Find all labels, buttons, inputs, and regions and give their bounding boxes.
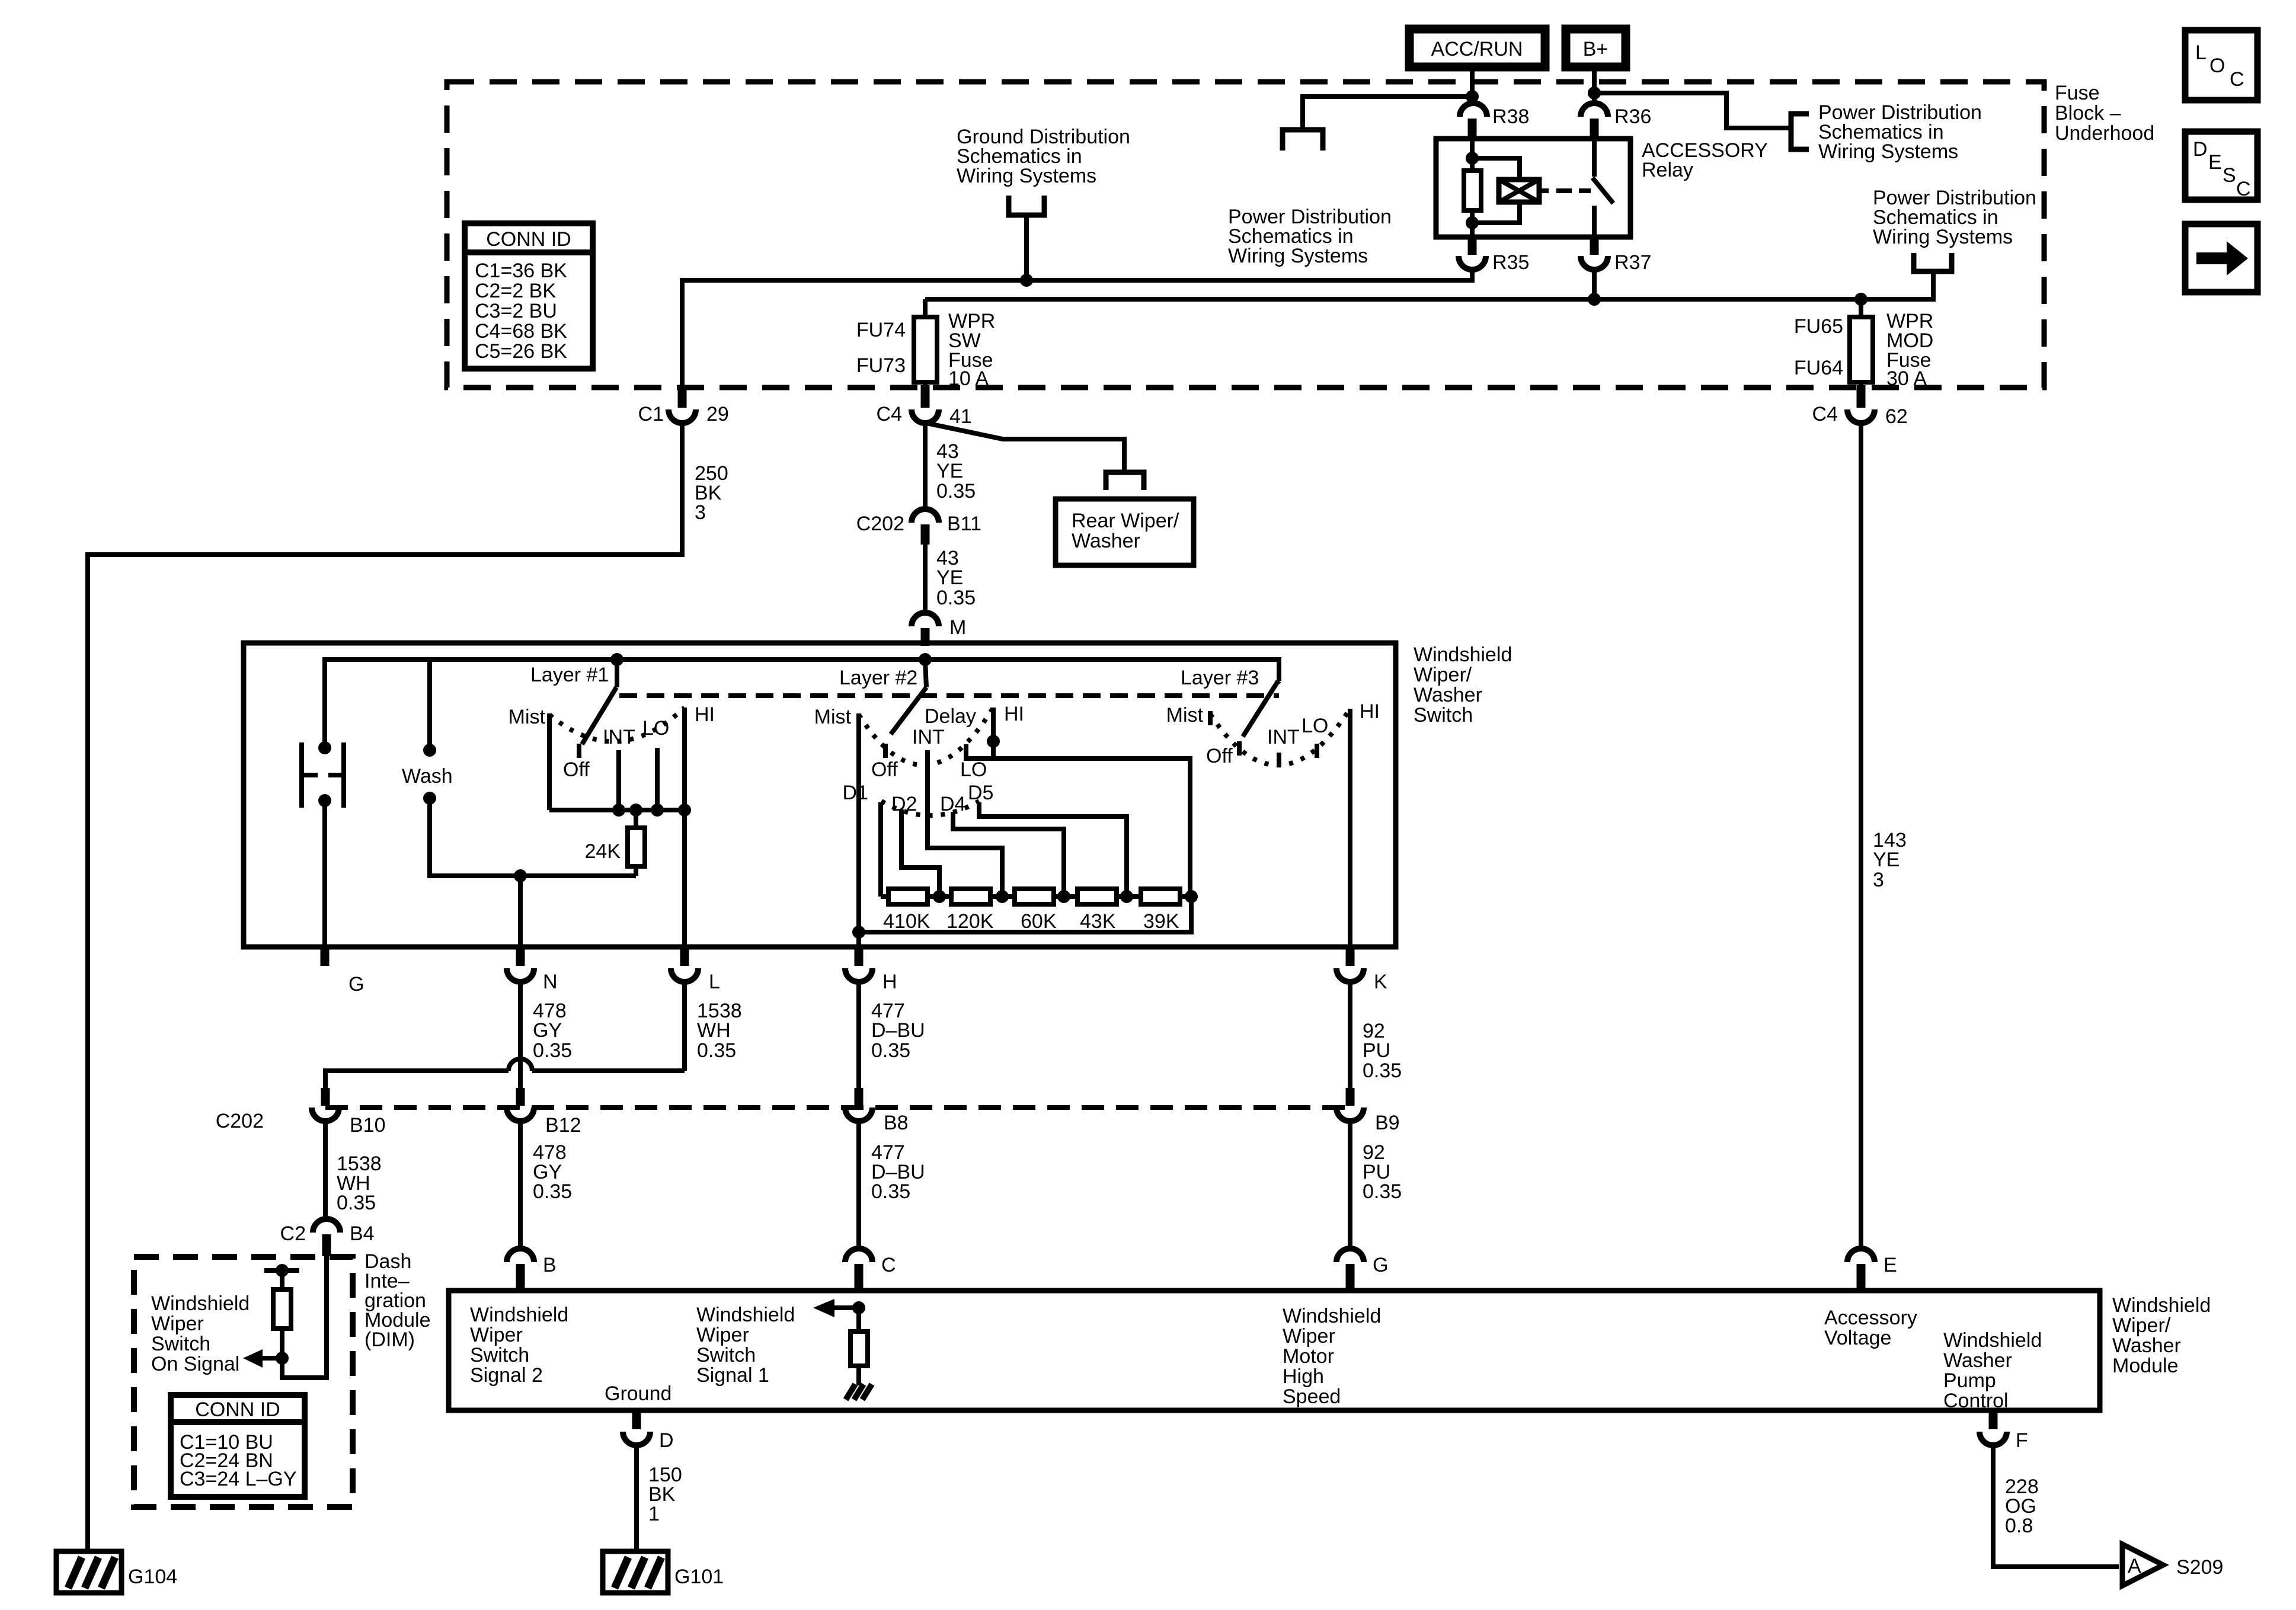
- label: 228 OG 0.8: [2005, 1475, 2039, 1537]
- wire: layer1 contact bus: [549, 808, 685, 812]
- svg-text:Switch: Switch: [470, 1344, 529, 1366]
- svg-text:High: High: [1283, 1365, 1324, 1388]
- terminal F (module): [1980, 1410, 2028, 1452]
- svg-text:FU65: FU65: [1794, 315, 1843, 338]
- fuse FU74/FU73: WPR SW Fuse 10 A: [856, 299, 995, 390]
- label: 92 PU 0.35 (K): [1363, 1020, 1402, 1082]
- terminal B (module): [507, 1249, 557, 1291]
- connector M (wiper switch): [912, 613, 966, 646]
- CONN ID table (DIM): [171, 1395, 305, 1497]
- svg-text:B12: B12: [545, 1114, 581, 1137]
- svg-text:G: G: [1373, 1254, 1388, 1276]
- wire: layer1 LO contact: [655, 748, 660, 810]
- node: coil bottom junction: [1466, 216, 1479, 229]
- connector C1 pin 29: [638, 385, 729, 425]
- label: 92 PU 0.35 (B9): [1363, 1141, 1402, 1203]
- wire: wash branch drop: [427, 660, 432, 750]
- svg-text:C1=36 BK: C1=36 BK: [475, 260, 567, 282]
- node: N drop junction: [514, 869, 527, 882]
- svg-text:Switch: Switch: [696, 1344, 756, 1366]
- bus junction nodes: [612, 804, 625, 817]
- label: Ground Distribution Schematics in Wiring Systems: [957, 126, 1130, 187]
- wire: ground distribution stem: [1024, 215, 1029, 280]
- washer pump momentary switch: [302, 741, 344, 808]
- svg-text:R35: R35: [1492, 251, 1529, 274]
- svg-text:24K: 24K: [585, 840, 621, 863]
- wire 228 OG 0.8: [1993, 1445, 2119, 1567]
- svg-text:Fuse: Fuse: [2055, 82, 2100, 104]
- svg-text:B10: B10: [350, 1114, 386, 1137]
- svg-text:Wiring Systems: Wiring Systems: [1873, 226, 2013, 248]
- svg-text:Wiper/: Wiper/: [1414, 664, 1472, 686]
- resistor (relay coil suppression): [1464, 171, 1481, 210]
- wire 1538 WH 0.35 (B10 to B4): [323, 1121, 328, 1218]
- connector C202 pin B8: [845, 1088, 909, 1134]
- label: 1538 WH 0.35 (L): [697, 1000, 742, 1062]
- svg-text:Off: Off: [1206, 745, 1233, 767]
- svg-text:3: 3: [695, 501, 706, 524]
- wire: B+ down to relay R36: [1592, 67, 1597, 104]
- label: 43 YE 0.35 (lower): [936, 547, 976, 609]
- connector C202 pin B9: [1336, 1088, 1400, 1134]
- svg-text:D1: D1: [843, 782, 868, 804]
- svg-text:D2: D2: [891, 793, 917, 815]
- svg-text:Pump: Pump: [1943, 1369, 1996, 1392]
- svg-text:C4: C4: [1812, 403, 1838, 425]
- wire: layer1 INT contact: [616, 750, 621, 810]
- svg-text:G: G: [348, 973, 364, 996]
- svg-text:0.35: 0.35: [936, 480, 976, 502]
- svg-text:D–BU: D–BU: [871, 1019, 925, 1042]
- svg-text:K: K: [1374, 971, 1387, 993]
- svg-text:G104: G104: [128, 1566, 177, 1588]
- svg-text:LO: LO: [1302, 715, 1328, 737]
- terminal G (switch): [325, 947, 364, 996]
- svg-text:Layer #3: Layer #3: [1181, 667, 1259, 689]
- svg-text:0.35: 0.35: [337, 1192, 376, 1214]
- svg-text:Washer: Washer: [1943, 1349, 2012, 1372]
- svg-text:LO: LO: [960, 758, 987, 781]
- ladder junction nodes: [933, 890, 946, 903]
- svg-text:INT: INT: [912, 726, 945, 748]
- svg-text:0.35: 0.35: [936, 587, 976, 609]
- wire: coil branch top: [1472, 158, 1520, 180]
- connector C4 pin 41: [877, 385, 972, 428]
- svg-text:D5: D5: [968, 782, 993, 804]
- svg-text:C1: C1: [638, 403, 664, 425]
- svg-text:41: 41: [949, 405, 972, 428]
- connector C4 pin 62: [1812, 385, 1908, 428]
- svg-text:Rear Wiper/: Rear Wiper/: [1072, 510, 1179, 532]
- terminal E (module): [1847, 1249, 1897, 1291]
- svg-text:YE: YE: [936, 460, 963, 482]
- svg-text:Mist: Mist: [509, 706, 546, 728]
- svg-text:B11: B11: [947, 513, 981, 535]
- svg-text:HI: HI: [1360, 700, 1380, 723]
- wire: branch to Rear Wiper/Washer: [926, 423, 1124, 472]
- svg-text:39K: 39K: [1143, 910, 1179, 933]
- svg-text:Windshield: Windshield: [1943, 1329, 2042, 1352]
- reference bracket: Power Distribution (ACC/RUN): [1283, 130, 1323, 151]
- svg-text:N: N: [543, 971, 558, 993]
- node: layer2 HI junction: [987, 735, 1000, 748]
- switch arm layer 3: [1243, 681, 1279, 737]
- svg-text:62: 62: [1885, 405, 1908, 428]
- node: M junction on rail: [919, 653, 932, 666]
- relay actuator dashed link: [1556, 188, 1591, 193]
- Fuse Block - Underhood dashed boundary: [447, 82, 2044, 388]
- svg-text:Switch: Switch: [151, 1333, 210, 1355]
- resistor 410K: [883, 889, 930, 933]
- svg-text:L: L: [709, 971, 720, 993]
- svg-text:E: E: [1884, 1254, 1897, 1276]
- node: DIM signal junction: [276, 1352, 289, 1365]
- wire: N drop: [518, 876, 523, 947]
- wire 1538 WH 0.35 (L): [682, 982, 687, 1071]
- reference bracket: Ground Distribution: [1009, 196, 1044, 215]
- connector C2 pin B4: [280, 1219, 375, 1256]
- relay switch contact: [1593, 139, 1613, 237]
- box: Rear Wiper/Washer: [1056, 499, 1194, 565]
- svg-text:Wiper: Wiper: [696, 1324, 749, 1346]
- svg-text:C: C: [881, 1254, 896, 1276]
- reference bracket: Power Distribution (WPR MOD): [1914, 253, 1952, 271]
- wire 478 GY 0.35 (B12 to B): [518, 1121, 523, 1249]
- wire: switch feed rail: [325, 660, 1279, 748]
- svg-text:Motor: Motor: [1283, 1345, 1334, 1368]
- box: Windshield Wiper/Washer Module: [449, 1291, 2100, 1410]
- layer1 Off contact: [577, 744, 581, 758]
- svg-text:S209: S209: [2176, 1556, 2223, 1579]
- svg-text:O: O: [2209, 55, 2225, 77]
- delay resistor ladder bus: [881, 894, 1191, 899]
- box: Windshield Wiper/Washer Switch: [244, 643, 1396, 947]
- svg-text:1: 1: [648, 1503, 660, 1525]
- svg-text:C4: C4: [877, 403, 902, 425]
- svg-text:ACC/RUN: ACC/RUN: [1431, 38, 1523, 60]
- CONN ID table (fuse block): [465, 223, 593, 369]
- svg-text:Windshield: Windshield: [1283, 1305, 1381, 1327]
- connector C202 pin B12: [507, 1088, 581, 1137]
- svg-text:Off: Off: [563, 758, 590, 781]
- svg-text:C2=2 BK: C2=2 BK: [475, 280, 556, 302]
- svg-text:FU64: FU64: [1794, 357, 1843, 379]
- terminal H (switch): [845, 947, 897, 993]
- svg-text:B: B: [543, 1254, 557, 1276]
- svg-text:C3=24 L–GY: C3=24 L–GY: [180, 1468, 297, 1490]
- wire: layer1 HI contact to L terminal: [682, 708, 687, 947]
- svg-text:B4: B4: [350, 1222, 375, 1245]
- svg-text:FU73: FU73: [856, 354, 906, 377]
- connector R38: [1460, 103, 1529, 139]
- label: Power Distribution Schematics in Wiring Systems (ACC/RUN): [1228, 206, 1392, 267]
- svg-text:Washer: Washer: [2112, 1334, 2181, 1357]
- label: Windshield Washer Pump Control: [1943, 1329, 2042, 1412]
- svg-text:Signal 2: Signal 2: [470, 1364, 543, 1387]
- label: Windshield Wiper/Washer Switch: [1414, 644, 1512, 726]
- label: Fuse Block - Underhood: [2055, 82, 2154, 145]
- wire: layer2 Mist contact to H terminal: [856, 713, 861, 947]
- wire: layer3 HI contact to K terminal: [1348, 709, 1352, 947]
- wire C4-62 to E: 143 YE 3: [1859, 423, 1863, 1249]
- layer3 INT contact: [1277, 753, 1281, 767]
- svg-text:43K: 43K: [1080, 910, 1116, 933]
- svg-text:Delay: Delay: [925, 705, 976, 728]
- svg-text:INT: INT: [1267, 726, 1300, 748]
- svg-text:HI: HI: [695, 703, 715, 726]
- reference bracket: Rear Wiper/Washer feed: [1106, 472, 1144, 490]
- svg-text:10 A: 10 A: [948, 367, 989, 390]
- svg-text:Voltage: Voltage: [1824, 1327, 1891, 1349]
- wire: layer2 LO contact elbow: [966, 744, 993, 758]
- node: DIM terminal junction: [276, 1264, 289, 1277]
- node: R37 junction: [1588, 293, 1601, 306]
- connector R35: [1459, 237, 1529, 274]
- svg-text:S: S: [2223, 164, 2236, 187]
- label: 43 YE 0.35 (upper): [936, 440, 976, 502]
- svg-text:YE: YE: [936, 566, 963, 589]
- switch arm layer 1: [582, 660, 617, 744]
- switch arm layer 2: [891, 660, 926, 734]
- resistor 39K: [1141, 889, 1180, 933]
- svg-text:G101: G101: [674, 1566, 724, 1588]
- label: 150 BK 1: [648, 1464, 682, 1525]
- svg-text:Wiring Systems: Wiring Systems: [1228, 245, 1368, 267]
- connector R37: [1581, 237, 1651, 274]
- svg-text:HI: HI: [1004, 703, 1024, 725]
- svg-text:0.35: 0.35: [871, 1039, 910, 1062]
- module internal resistor: [850, 1308, 868, 1385]
- svg-text:B9: B9: [1375, 1112, 1400, 1134]
- DIM input terminal bar: [264, 1268, 299, 1273]
- svg-text:C202: C202: [216, 1110, 264, 1132]
- svg-text:C5=26 BK: C5=26 BK: [475, 340, 567, 363]
- label: Windshield Wiper/Washer Module: [2112, 1294, 2211, 1377]
- terminal N (switch): [507, 947, 558, 993]
- svg-text:Wiper: Wiper: [1283, 1325, 1335, 1347]
- wire 478 GY 0.35 (N): [518, 982, 523, 1090]
- svg-text:0.8: 0.8: [2005, 1515, 2033, 1537]
- svg-text:Wiper/: Wiper/: [2112, 1314, 2171, 1337]
- svg-text:C2: C2: [280, 1222, 306, 1245]
- relay U1: ACCESSORY Relay box: [1436, 139, 1630, 237]
- svg-text:Block –: Block –: [2055, 102, 2121, 124]
- ground G101: [603, 1551, 724, 1593]
- node: layer1 junction on rail: [610, 653, 623, 666]
- layer3 Mist contact: [1208, 711, 1213, 725]
- LOC reference box: [2185, 30, 2257, 100]
- wire 477 D-BU 0.35 (B8 to C): [856, 1121, 861, 1249]
- label: Windshield Wiper Switch Signal 2: [470, 1304, 568, 1387]
- svg-text:Ground: Ground: [605, 1382, 671, 1405]
- node: H junction: [852, 926, 865, 939]
- svg-text:Wiper: Wiper: [470, 1324, 523, 1346]
- wire: B4 into DIM: [282, 1255, 327, 1378]
- forward arrow reference box: [2185, 224, 2257, 292]
- svg-text:Wiring Systems: Wiring Systems: [1818, 140, 1958, 163]
- wire: ACC/RUN down to relay R38: [1470, 67, 1475, 104]
- wire 150 BK 1: [634, 1445, 639, 1551]
- svg-text:Windshield: Windshield: [696, 1304, 795, 1326]
- svg-text:0.35: 0.35: [1363, 1180, 1402, 1203]
- svg-text:Accessory: Accessory: [1824, 1307, 1917, 1329]
- label: 477 D-BU 0.35 (B8): [871, 1141, 925, 1203]
- svg-text:A: A: [2128, 1555, 2141, 1577]
- svg-text:F: F: [2016, 1429, 2028, 1452]
- svg-text:H: H: [882, 971, 897, 993]
- wire: ACC/RUN feed branch to power distribution reference: [1303, 97, 1472, 130]
- svg-text:C: C: [2236, 178, 2251, 200]
- label: 1538 WH 0.35 (B10): [337, 1153, 382, 1214]
- svg-text:Mist: Mist: [814, 706, 852, 728]
- wire: R35 down and left to C1 column: [682, 270, 1472, 388]
- resistor 120K: [946, 889, 994, 933]
- ground G104: [56, 1551, 177, 1593]
- label: Windshield Wiper Switch On Signal: [151, 1292, 250, 1375]
- wire: layer2 HI contact to 39K junction: [993, 708, 1190, 897]
- wire: D5 contact to 43K/39K junction: [979, 802, 1127, 897]
- svg-text:3: 3: [1873, 869, 1884, 891]
- wire: R37 down to fuse feed rail: [1592, 270, 1597, 299]
- label: ACCESSORY Relay: [1642, 139, 1768, 181]
- svg-text:C4=68 BK: C4=68 BK: [475, 320, 567, 343]
- svg-text:Mist: Mist: [1166, 704, 1204, 726]
- label: Windshield Wiper Motor High Speed: [1283, 1305, 1381, 1408]
- svg-text:R38: R38: [1492, 105, 1529, 128]
- svg-text:29: 29: [706, 403, 729, 425]
- svg-text:Washer: Washer: [1072, 530, 1140, 552]
- svg-text:CONN ID: CONN ID: [195, 1398, 280, 1421]
- terminal L (switch): [671, 947, 720, 993]
- svg-text:Wiring Systems: Wiring Systems: [957, 165, 1096, 187]
- wire 43 YE 0.35 (upper): [923, 423, 928, 508]
- svg-text:On Signal: On Signal: [151, 1353, 239, 1375]
- layer3 Off contact: [1237, 741, 1242, 756]
- relay coil symbol (crossed box): [1499, 180, 1549, 202]
- svg-text:YE: YE: [1873, 849, 1900, 871]
- wire: D1 contact to 410K left: [878, 802, 883, 897]
- svg-text:D: D: [2193, 138, 2208, 161]
- terminal K (switch): [1336, 947, 1387, 993]
- wire: relay coil leg: [1470, 139, 1475, 171]
- ACC/RUN power feed box: [1409, 29, 1545, 67]
- svg-text:410K: 410K: [883, 910, 930, 933]
- layer3 LO contact: [1315, 744, 1319, 758]
- wire: layer1 Mist contact: [547, 713, 552, 810]
- svg-text:C: C: [2230, 68, 2244, 91]
- svg-text:E: E: [2208, 151, 2222, 174]
- wire: below resistor: [1470, 210, 1475, 237]
- svg-text:Wash: Wash: [402, 765, 453, 788]
- svg-text:B+: B+: [1583, 38, 1609, 60]
- svg-text:Windshield: Windshield: [2112, 1294, 2211, 1317]
- connector C202 pin B10: [216, 1088, 386, 1137]
- splice reference S209: [2122, 1544, 2223, 1586]
- svg-text:B8: B8: [884, 1112, 909, 1134]
- wire: wash switch to G terminal: [322, 801, 327, 947]
- B+ power feed box: [1566, 29, 1626, 67]
- svg-text:WH: WH: [697, 1019, 731, 1042]
- label: Windshield Wiper Switch Signal 1: [696, 1304, 795, 1387]
- svg-text:L: L: [2195, 41, 2207, 64]
- wire 477 D-BU 0.35 (H): [856, 982, 861, 1090]
- layer2 Off contact: [883, 744, 888, 758]
- connector R36: [1581, 103, 1651, 139]
- svg-text:D: D: [659, 1429, 674, 1452]
- resistor 24K: [585, 810, 645, 876]
- wash contact dots: [423, 744, 436, 757]
- svg-text:Washer: Washer: [1414, 684, 1482, 706]
- resistor 43K: [1077, 889, 1117, 933]
- label: Power Distribution Schematics in Wiring Systems (WPR MOD): [1873, 187, 2036, 248]
- wire 92 PU 0.35 (K): [1348, 982, 1352, 1090]
- svg-text:Relay: Relay: [1642, 159, 1693, 181]
- node: junction on ACC/RUN feed: [1466, 90, 1479, 103]
- svg-text:Layer #2: Layer #2: [839, 667, 917, 689]
- label: Power Distribution Schematics in Wiring Systems (B+): [1818, 101, 1982, 163]
- module internal chassis ground: [846, 1384, 872, 1400]
- svg-text:Wiper: Wiper: [151, 1313, 204, 1335]
- wire: L jog to B10 with hop over N: [325, 1059, 685, 1090]
- svg-text:Speed: Speed: [1283, 1385, 1341, 1408]
- label: Accessory Voltage: [1824, 1307, 1917, 1349]
- svg-text:PU: PU: [1363, 1039, 1390, 1062]
- node: coil top junction: [1466, 152, 1479, 165]
- wire 92 PU 0.35 (B9 to G): [1348, 1121, 1352, 1249]
- svg-text:Off: Off: [871, 758, 898, 781]
- delay contact arc D1-D5: [881, 801, 979, 815]
- label: 478 GY 0.35 (B12): [533, 1141, 572, 1203]
- svg-text:Switch: Switch: [1414, 704, 1473, 726]
- fuse FU65/FU64: WPR MOD Fuse 30 A: [1794, 299, 1933, 390]
- DESC reference box: [2185, 132, 2257, 200]
- svg-text:C202: C202: [856, 513, 904, 535]
- layer1 contact arc: [549, 708, 685, 741]
- svg-text:Layer #1: Layer #1: [530, 664, 609, 686]
- connector C202 pin B11: [856, 509, 981, 545]
- layer2 contact arc: [859, 708, 993, 765]
- label: 250 BK 3: [695, 462, 728, 524]
- svg-text:0.35: 0.35: [533, 1039, 572, 1062]
- svg-text:Windshield: Windshield: [1414, 644, 1512, 666]
- node: FU65 junction: [1854, 293, 1868, 306]
- wire: wash lower to N bus: [430, 798, 636, 876]
- label: 478 GY 0.35 (N): [533, 1000, 572, 1062]
- svg-text:30 A: 30 A: [1886, 367, 1927, 390]
- wire: ladder return to Mist/H: [859, 897, 1191, 932]
- reference bracket: Power Distribution (B+): [1791, 114, 1809, 149]
- svg-text:Windshield: Windshield: [151, 1292, 250, 1315]
- svg-text:M: M: [949, 616, 966, 639]
- node: junction ground stem: [1020, 274, 1033, 287]
- svg-text:60K: 60K: [1021, 910, 1057, 933]
- svg-text:Module: Module: [2112, 1355, 2179, 1377]
- svg-text:(DIM): (DIM): [364, 1329, 415, 1351]
- wire: D2 contact to 410K/120K junction: [901, 809, 939, 897]
- svg-text:0.35: 0.35: [533, 1180, 572, 1203]
- layer3 contact arc: [1210, 709, 1350, 765]
- wire: layer2 INT wiper to 120K/60K junction: [928, 750, 1002, 897]
- svg-text:0.35: 0.35: [1363, 1060, 1402, 1082]
- label: Dash Integration Module (DIM): [364, 1250, 431, 1351]
- signal arrow: Windshield Wiper Switch On Signal: [243, 1349, 282, 1368]
- svg-text:Windshield: Windshield: [470, 1304, 568, 1326]
- svg-text:INT: INT: [603, 726, 635, 748]
- svg-text:R37: R37: [1614, 251, 1651, 274]
- node: junction at B+: [1588, 87, 1601, 100]
- svg-text:CONN ID: CONN ID: [486, 228, 571, 251]
- signal 1 arrow: [813, 1299, 865, 1317]
